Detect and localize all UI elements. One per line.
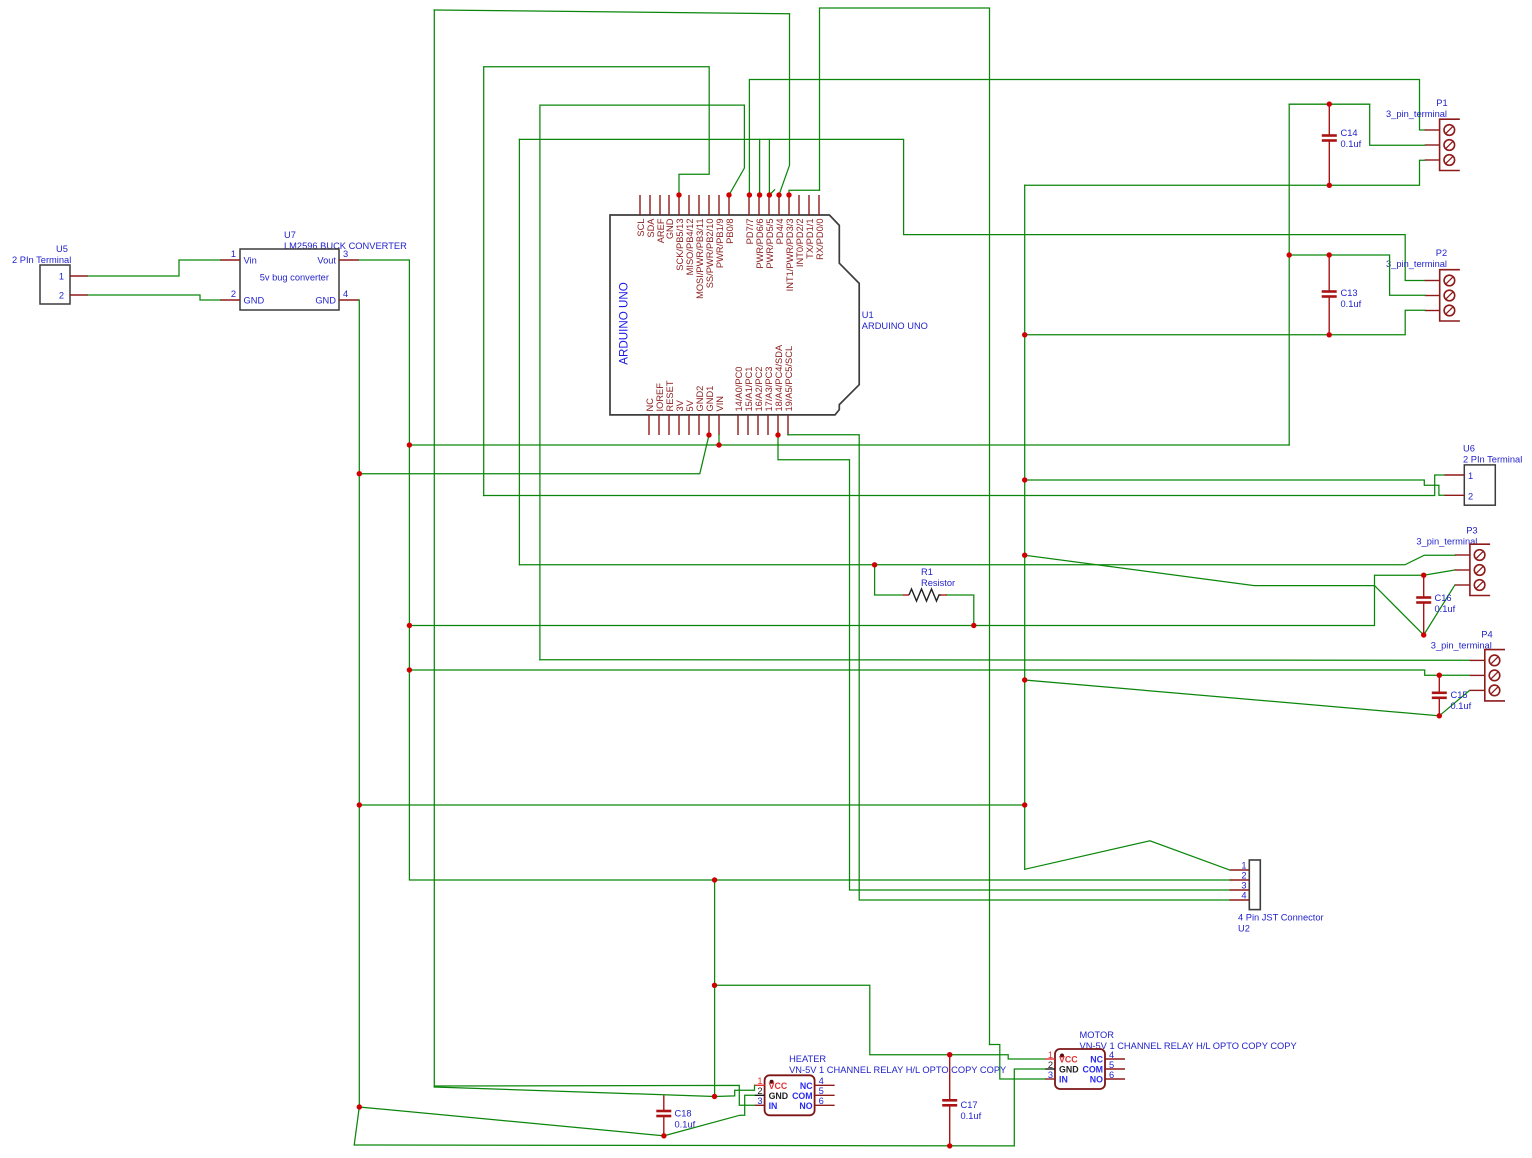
wire PD5/5 stub diagonal [769, 190, 774, 195]
wire VIN pin to +5V line [718, 435, 720, 445]
svg-text:4: 4 [819, 1076, 824, 1086]
wire HEATER GND to C18 bottom [664, 1095, 755, 1136]
wire GND1 to GND vertical [359, 435, 709, 474]
svg-text:3_pin_terminal: 3_pin_terminal [1416, 537, 1477, 547]
wire U7 Vout down to U2 pin2 (+5V net) [359, 260, 1230, 880]
svg-text:MOTOR: MOTOR [1080, 1030, 1115, 1040]
svg-text:2: 2 [1048, 1060, 1053, 1070]
svg-text:VN-5V 1 CHANNEL RELAY H/L OPTO: VN-5V 1 CHANNEL RELAY H/L OPTO COPY COPY [789, 1065, 1006, 1075]
svg-text:U1: U1 [862, 310, 874, 320]
svg-text:C18: C18 [675, 1109, 692, 1119]
wire GND vertical x1024 [1024, 185, 1026, 869]
svg-text:NC: NC [800, 1081, 813, 1091]
svg-text:2: 2 [1241, 871, 1246, 881]
svg-text:14/A0/PC0: 14/A0/PC0 [734, 367, 744, 412]
U1 top pins [640, 195, 819, 215]
svg-text:17/A3/PC3: 17/A3/PC3 [764, 367, 774, 412]
junction [971, 623, 976, 628]
svg-text:16/A2/PC2: 16/A2/PC2 [754, 367, 764, 412]
junction [1421, 573, 1426, 578]
wire U7 GND4 down (GND net) [358, 300, 360, 1107]
svg-text:Resistor: Resistor [921, 578, 955, 588]
wire PD6/6 riser [759, 139, 761, 195]
svg-text:0.1uf: 0.1uf [1341, 299, 1362, 309]
wire pin19 tip [787, 434, 789, 436]
svg-text:RESET: RESET [665, 380, 675, 411]
svg-text:0.1uf: 0.1uf [1341, 139, 1362, 149]
svg-text:1: 1 [231, 249, 236, 259]
capacitor C16 [1416, 575, 1455, 635]
svg-text:3: 3 [757, 1096, 762, 1106]
svg-text:IN: IN [1059, 1075, 1068, 1085]
regulator U7 LM2596 BUCK CONVERTER [220, 230, 407, 310]
svg-text:2: 2 [757, 1086, 762, 1096]
svg-text:1: 1 [1241, 861, 1246, 871]
svg-text:VCC: VCC [769, 1081, 788, 1091]
wire diag to C15 bottom [1025, 680, 1440, 716]
wire GND to U6 pin2 [1025, 480, 1445, 495]
svg-text:2: 2 [1468, 492, 1473, 502]
U1 bottom pins [649, 415, 788, 435]
junction [407, 442, 412, 447]
svg-text:SCL: SCL [636, 219, 646, 237]
svg-text:VIN: VIN [715, 396, 725, 412]
svg-text:PD4/4: PD4/4 [775, 219, 785, 245]
wire C15 bottom to P4 pin3 [1439, 690, 1469, 715]
junction [1421, 632, 1426, 637]
resistor R1 [875, 565, 974, 626]
svg-text:VCC: VCC [1059, 1055, 1078, 1065]
wire R1 left lead [875, 565, 903, 595]
junction [767, 192, 772, 197]
wire to HEATER IN [434, 1085, 754, 1105]
U1 top pin labels [636, 218, 825, 299]
svg-text:4: 4 [1241, 891, 1246, 901]
svg-text:1: 1 [757, 1076, 762, 1086]
svg-text:1: 1 [59, 272, 64, 282]
wire y564 to P3 pin1 [519, 555, 1455, 565]
wire P2 pin3 to C13 bottom line [1025, 310, 1425, 335]
wire U5.1 to U7 Vin [88, 260, 220, 276]
wire y670 to P4 pin2 [409, 670, 1469, 675]
junction [1022, 677, 1027, 682]
connector P1 3_pin_terminal [1386, 98, 1460, 171]
junction [661, 1133, 666, 1138]
svg-text:2 PIn Terminal: 2 PIn Terminal [12, 255, 71, 265]
wire x714 vertical [714, 880, 716, 1097]
svg-text:COM: COM [792, 1091, 813, 1101]
svg-text:GND: GND [315, 296, 336, 306]
junction [1022, 802, 1027, 807]
svg-text:1: 1 [1468, 471, 1473, 481]
svg-text:PWR/PD5/5: PWR/PD5/5 [765, 219, 775, 269]
wire x519 vertical [518, 139, 520, 564]
svg-text:3: 3 [1241, 881, 1246, 891]
connector P4 3_pin_terminal [1431, 629, 1505, 701]
svg-text:COM: COM [1082, 1065, 1103, 1075]
junction [947, 1143, 952, 1148]
svg-text:5v bug converter: 5v bug converter [260, 273, 329, 283]
svg-text:PWR/PD6/6: PWR/PD6/6 [755, 219, 765, 269]
svg-text:5: 5 [1109, 1060, 1114, 1070]
wire pin18 to U2 pin3 [778, 435, 1230, 890]
junction [747, 192, 752, 197]
svg-text:GND2: GND2 [695, 386, 705, 412]
junction [1327, 101, 1332, 106]
junction [1287, 252, 1292, 257]
junction [1022, 477, 1027, 482]
svg-text:3_pin_terminal: 3_pin_terminal [1386, 259, 1447, 269]
wire P1 pin2 to C14 top line [1289, 104, 1425, 145]
junction [1327, 183, 1332, 188]
svg-text:2 PIn Terminal: 2 PIn Terminal [1463, 455, 1522, 465]
svg-text:6: 6 [819, 1096, 824, 1106]
wire peak to U2 pin1 [1025, 841, 1230, 870]
wire GND y805 [359, 804, 1025, 806]
junction [706, 432, 711, 437]
wire R1 right lead [947, 595, 974, 626]
junction [407, 667, 412, 672]
svg-text:P3: P3 [1466, 526, 1477, 536]
svg-text:PB0/8: PB0/8 [725, 219, 735, 244]
wire P2 pin2 to C13 top line [1289, 255, 1425, 295]
junction [947, 1052, 952, 1057]
junction [1327, 332, 1332, 337]
svg-text:C15: C15 [1451, 690, 1468, 700]
svg-text:4: 4 [1109, 1050, 1114, 1060]
wire diag to C16 bottom [1025, 555, 1424, 635]
svg-text:INT1/PWR/PD3/3: INT1/PWR/PD3/3 [785, 219, 795, 292]
junction [716, 442, 721, 447]
svg-text:P4: P4 [1481, 629, 1492, 639]
svg-text:6: 6 [1109, 1070, 1114, 1080]
svg-text:GND: GND [665, 218, 675, 239]
wire GND bottom line [354, 1107, 1014, 1146]
junction [1437, 713, 1442, 718]
wire VCC sloped to HEATER pin1 [434, 1085, 754, 1096]
svg-text:GND: GND [1059, 1065, 1079, 1075]
connector P3 3_pin_terminal [1416, 526, 1490, 596]
wire PD7/7 to P1 pin1 [749, 80, 1424, 196]
svg-text:3_pin_terminal: 3_pin_terminal [1386, 109, 1447, 119]
wire PB5/13 to x483 vertical [484, 67, 710, 496]
junction [726, 192, 731, 197]
svg-text:MISO/PB4/12: MISO/PB4/12 [685, 219, 695, 276]
svg-text:U6: U6 [1463, 444, 1475, 454]
junction [776, 192, 781, 197]
svg-text:ARDUINO UNO: ARDUINO UNO [618, 282, 631, 364]
junction [757, 192, 762, 197]
svg-text:0.1uf: 0.1uf [1451, 701, 1472, 711]
svg-text:RX/PD0/0: RX/PD0/0 [815, 219, 825, 260]
svg-text:R1: R1 [921, 567, 933, 577]
wire A right leg to PD4/4 [779, 14, 790, 195]
svg-text:IN: IN [769, 1101, 778, 1111]
svg-text:C13: C13 [1341, 288, 1358, 298]
svg-text:P2: P2 [1436, 248, 1447, 258]
junction [357, 471, 362, 476]
wire bus y139 to P2 pin1 [519, 139, 1425, 280]
wire C17 top to MOTOR VCC [950, 1055, 1045, 1059]
wire P1 pin3 to C14 bottom line [1025, 160, 1425, 185]
svg-text:HEATER: HEATER [789, 1054, 826, 1064]
wire top A horizontal [434, 10, 789, 14]
wire C16 bottom to P3 pin3 [1424, 585, 1455, 635]
svg-text:3: 3 [1048, 1070, 1053, 1080]
capacitor C17 [942, 1055, 981, 1146]
svg-text:1: 1 [1048, 1050, 1053, 1060]
junction [407, 623, 412, 628]
svg-text:PWR/PB1/9: PWR/PB1/9 [715, 219, 725, 269]
junction [786, 192, 791, 197]
svg-text:3: 3 [343, 249, 348, 259]
svg-text:GND: GND [769, 1091, 789, 1101]
svg-text:SDA: SDA [646, 218, 656, 238]
junction [1022, 332, 1027, 337]
svg-text:SS/PWR/PB2/10: SS/PWR/PB2/10 [705, 219, 715, 289]
svg-text:ARDUINO UNO: ARDUINO UNO [862, 321, 928, 331]
svg-text:C17: C17 [961, 1100, 978, 1110]
junction [712, 983, 717, 988]
svg-text:0.1uf: 0.1uf [961, 1111, 982, 1121]
junction [1437, 673, 1442, 678]
svg-text:U7: U7 [284, 230, 296, 240]
svg-text:GND: GND [244, 296, 265, 306]
wire GND up to MOTOR pin2 [1014, 1069, 1045, 1146]
svg-text:18/A4/PC4/SDA: 18/A4/PC4/SDA [774, 344, 784, 411]
svg-text:15/A1/PC1: 15/A1/PC1 [744, 367, 754, 412]
junction [1022, 553, 1027, 558]
junction [1327, 252, 1332, 257]
wire y625 to P3 pin2 [409, 570, 1455, 626]
wire PD5/5 riser [768, 139, 770, 195]
svg-text:2: 2 [231, 289, 236, 299]
svg-text:MOSI/PWR/PB3/11: MOSI/PWR/PB3/11 [695, 219, 705, 299]
wire to PD3/3 pin [789, 190, 820, 195]
svg-text:SCK/PB5/13: SCK/PB5/13 [675, 219, 685, 271]
wire PB0/8 to x539 vertical [540, 105, 745, 660]
svg-text:NC: NC [645, 398, 655, 412]
wire VCC to C17 top [715, 985, 950, 1054]
svg-text:C16: C16 [1435, 593, 1452, 603]
connector U2 4 Pin JST Connector [1230, 860, 1324, 934]
svg-text:GND1: GND1 [705, 386, 715, 412]
svg-text:IOREF: IOREF [655, 383, 665, 412]
mcu U1 ARDUINO UNO [610, 215, 928, 415]
svg-text:INT0/PD2/2: INT0/PD2/2 [795, 219, 805, 268]
junction [712, 1094, 717, 1099]
wire GND diag to C18 bottom [359, 1107, 664, 1136]
svg-text:4: 4 [343, 289, 348, 299]
wire A vertical x434 [433, 10, 435, 1087]
wire pin19 to U2 pin4 [788, 435, 1230, 900]
svg-text:Vout: Vout [317, 256, 336, 266]
wire U5.2 to U7 GND [88, 295, 220, 300]
wire x1289 vertical to C14 top line [1289, 104, 1370, 445]
svg-text:3_pin_terminal: 3_pin_terminal [1431, 640, 1492, 650]
svg-text:NO: NO [799, 1101, 812, 1111]
junction [676, 192, 681, 197]
svg-text:3V: 3V [675, 399, 685, 411]
relay MOTOR VN-5V 1 CHANNEL RELAY [1045, 1030, 1297, 1089]
svg-text:Vin: Vin [244, 256, 257, 266]
svg-text:C14: C14 [1341, 128, 1358, 138]
svg-text:19/A5/PC5/SCL: 19/A5/PC5/SCL [784, 346, 794, 412]
wire +5V line y445 [409, 444, 1289, 446]
svg-text:TX/PD1/1: TX/PD1/1 [805, 219, 815, 259]
capacitor C13 [1322, 255, 1362, 335]
wire to U6 pin1 [484, 475, 1445, 496]
svg-text:NO: NO [1090, 1075, 1103, 1085]
junction [872, 562, 877, 567]
junction [357, 802, 362, 807]
svg-text:P1: P1 [1436, 98, 1447, 108]
svg-text:PD7/7: PD7/7 [745, 219, 755, 245]
wire PD3/3 top loop to motor IN vertical [820, 8, 990, 1045]
connector P2 3_pin_terminal [1386, 248, 1460, 321]
svg-text:0.1uf: 0.1uf [1435, 604, 1456, 614]
U1 bottom pin labels [645, 344, 794, 411]
capacitor C14 [1322, 104, 1362, 185]
wire to MOTOR IN [990, 1045, 1046, 1080]
connector U6 2 PIn Terminal [1445, 444, 1523, 506]
svg-text:U5: U5 [56, 244, 68, 254]
connector U5 2 PIn Terminal [12, 244, 88, 304]
svg-text:5: 5 [819, 1086, 824, 1096]
svg-text:4 Pin JST Connector: 4 Pin JST Connector [1238, 913, 1324, 923]
svg-text:U2: U2 [1238, 924, 1250, 934]
svg-text:2: 2 [59, 291, 64, 301]
junction [357, 1104, 362, 1109]
capacitor C18 [656, 1095, 695, 1136]
svg-text:5V: 5V [685, 399, 695, 411]
svg-text:NC: NC [1090, 1055, 1103, 1065]
relay HEATER VN-5V 1 CHANNEL RELAY [755, 1054, 1007, 1115]
junction [775, 432, 780, 437]
capacitor C15 [1432, 675, 1472, 716]
wire y660 to P4 pin1 [540, 659, 1470, 662]
junction [712, 877, 717, 882]
